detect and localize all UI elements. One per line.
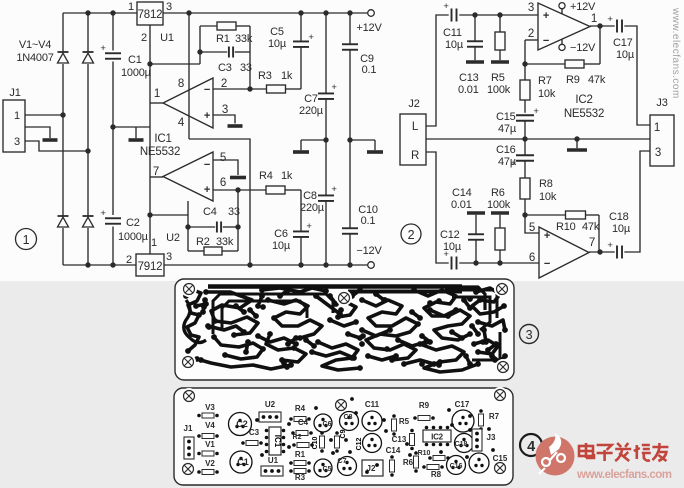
- PCB4 silk R5: [392, 414, 410, 436]
- PCB4 mounting hole TM: [333, 397, 349, 413]
- wire R10 row: [525, 214, 599, 216]
- svg-text:V2: V2: [205, 459, 215, 468]
- wire AC column b: [87, 13, 89, 265]
- node J1-1/bridge: [60, 112, 65, 117]
- svg-text:C17: C17: [455, 400, 470, 409]
- label C8: [300, 190, 325, 214]
- svg-text:+: +: [100, 208, 106, 219]
- svg-text:U2: U2: [265, 400, 276, 409]
- wire C3 row: [200, 51, 250, 53]
- PCB4 silk R6: [403, 451, 419, 473]
- label C2: [118, 217, 149, 243]
- svg-text:1k: 1k: [281, 170, 293, 182]
- PCB3 right corner traces: [445, 290, 500, 360]
- sign plus IC2a: [543, 10, 549, 22]
- svg-text:J3: J3: [656, 97, 667, 109]
- svg-text:R3: R3: [295, 473, 306, 482]
- svg-text:47k: 47k: [582, 221, 600, 233]
- label C3 33: [218, 62, 252, 74]
- svg-text:C11: C11: [443, 27, 462, 39]
- svg-text:+: +: [204, 110, 210, 122]
- PCB3 trace pattern: [186, 288, 505, 372]
- svg-text:3: 3: [166, 1, 172, 13]
- svg-text:+: +: [443, 1, 449, 12]
- PCB3 top bus trace: [208, 287, 485, 311]
- connector J3: [650, 115, 674, 166]
- diode V2 lower: [58, 216, 69, 227]
- resistor R3: [267, 85, 286, 93]
- svg-text:C1: C1: [128, 54, 142, 66]
- sign minus IC1a: [204, 84, 210, 96]
- wire C2 column lower: [112, 227, 114, 266]
- PCB3 pads: [183, 287, 508, 371]
- op-amp IC1b: [163, 152, 213, 201]
- wire power pass v1: [188, 13, 190, 139]
- wire gnd row mid: [113, 126, 150, 128]
- PCB4 silk V3: [197, 403, 219, 418]
- svg-text:0.1: 0.1: [362, 64, 377, 76]
- svg-text:10µ: 10µ: [612, 223, 631, 235]
- PCB4 silk R10: [418, 450, 450, 461]
- pin 5 IC1b: [220, 152, 226, 164]
- sign minus IC1b: [204, 159, 210, 171]
- svg-text:+12V: +12V: [570, 1, 596, 13]
- svg-text:C3: C3: [218, 62, 232, 74]
- svg-text:220µ: 220µ: [299, 105, 324, 117]
- label C11: [443, 27, 464, 51]
- svg-text:47µ: 47µ: [498, 123, 517, 135]
- svg-text:IC2: IC2: [431, 433, 444, 442]
- svg-text:3: 3: [14, 136, 20, 148]
- label C7: [299, 93, 324, 117]
- svg-text:IC2: IC2: [575, 94, 592, 106]
- wire C16 to R8: [524, 139, 526, 178]
- wire pin5 jog: [525, 215, 539, 233]
- node C9C10 mid: [347, 137, 352, 142]
- capacitor C2: [105, 218, 121, 224]
- node fb1 left/C3: [197, 49, 202, 54]
- svg-text:+: +: [533, 106, 539, 117]
- label +12V IC2: [570, 1, 596, 13]
- label J1: [9, 87, 20, 99]
- svg-text:J1: J1: [184, 424, 193, 433]
- background upper (schematic area): [0, 0, 684, 281]
- resistor R1: [217, 22, 236, 30]
- node bus/out2: [147, 212, 152, 217]
- label 1N4007: [16, 52, 53, 64]
- svg-text:C6: C6: [274, 228, 288, 240]
- ground C14: [467, 211, 485, 215]
- plus C15: [533, 106, 539, 117]
- svg-text:−: −: [544, 258, 550, 270]
- section mark 4: [520, 434, 542, 456]
- wire fb col up: [524, 40, 526, 64]
- svg-text:2: 2: [126, 254, 132, 266]
- PCB4 cap C12: [356, 434, 382, 453]
- svg-text:3: 3: [528, 2, 534, 14]
- PCB4 cap C1: [230, 451, 252, 473]
- label J2: [408, 98, 419, 110]
- svg-text:1N4007: 1N4007: [16, 52, 53, 64]
- PCB4 cap C5: [314, 459, 332, 477]
- wire out1 row: [590, 25, 615, 27]
- svg-text:220µ: 220µ: [300, 202, 325, 214]
- sign plus IC1b: [204, 184, 210, 196]
- terminal -12V: [368, 262, 375, 269]
- svg-text:C2: C2: [126, 217, 140, 229]
- svg-text:8: 8: [178, 78, 184, 90]
- svg-text:J2: J2: [408, 98, 419, 110]
- svg-text:5: 5: [529, 222, 535, 234]
- PCB3 mounting hole TM: [336, 290, 352, 306]
- resistor R7: [520, 80, 530, 100]
- terminal +12V: [368, 10, 375, 17]
- PCB4 silk J3: [472, 429, 496, 451]
- wire pin5 row: [213, 160, 238, 175]
- label C17: [613, 37, 635, 61]
- node power/rail: [186, 10, 191, 15]
- svg-text:10k: 10k: [538, 88, 556, 100]
- PCB4 silk R2: [292, 434, 314, 448]
- plus C11: [443, 1, 449, 12]
- node -rail c2: [110, 262, 115, 267]
- svg-text:R2: R2: [293, 434, 302, 441]
- PCB4 silk V1: [197, 440, 219, 456]
- svg-text:+: +: [543, 10, 549, 22]
- pin 2 of U2: [126, 254, 132, 266]
- ground J1 tap: [43, 138, 58, 142]
- svg-text:6: 6: [529, 252, 535, 264]
- svg-text:www.elecfans.com: www.elecfans.com: [576, 469, 672, 481]
- wire bottom row to pin6: [459, 262, 539, 264]
- regulator U1 7812: [137, 2, 163, 25]
- label C12: [440, 229, 462, 253]
- svg-text:C5: C5: [323, 466, 332, 473]
- svg-text:R5: R5: [491, 72, 505, 84]
- svg-text:C17: C17: [613, 37, 633, 49]
- label R5: [487, 72, 511, 96]
- svg-text:V4: V4: [205, 421, 215, 430]
- capacitor C3: [229, 47, 233, 58]
- pin 2 IC2a: [528, 28, 534, 40]
- svg-text:+: +: [331, 82, 337, 93]
- capacitor C16: [516, 155, 534, 161]
- terminal -12V IC2: [559, 39, 565, 51]
- svg-text:U2: U2: [166, 232, 180, 244]
- svg-text:C18: C18: [455, 441, 468, 448]
- resistor R8: [520, 178, 530, 199]
- PCB4 mounting hole TL: [181, 388, 197, 404]
- svg-text:10µ: 10µ: [445, 39, 464, 51]
- svg-text:5: 5: [220, 152, 226, 164]
- PCB4 mounting hole TR: [492, 387, 508, 403]
- svg-text:1: 1: [151, 237, 157, 249]
- svg-text:3: 3: [655, 147, 661, 159]
- svg-text:R10: R10: [556, 221, 576, 233]
- plus C18: [607, 240, 613, 251]
- capacitor C17: [617, 20, 622, 33]
- node R8/R10: [522, 212, 527, 217]
- label R10 47k: [556, 221, 600, 233]
- pin 1 of U1: [128, 1, 134, 13]
- connector J1: [3, 100, 25, 152]
- svg-text:R6: R6: [403, 458, 414, 467]
- node C7C8 mid: [323, 137, 328, 142]
- label C15: [496, 111, 517, 135]
- wire top +rail: [63, 12, 368, 14]
- svg-text:C4: C4: [298, 418, 309, 427]
- svg-text:−: −: [543, 35, 549, 47]
- svg-text:IC1: IC1: [273, 435, 282, 448]
- PCB copper-side board 3: [175, 279, 514, 380]
- svg-text:C18: C18: [609, 211, 629, 223]
- wire C9C10 column: [349, 13, 351, 265]
- PCB3 nested loop traces: [213, 294, 333, 334]
- section mark 2: [401, 224, 421, 244]
- PCB3 mounting hole TL: [181, 281, 197, 297]
- node pin6/fb2: [235, 187, 240, 192]
- svg-text:C1: C1: [237, 457, 249, 467]
- ground pin3: [228, 124, 243, 128]
- svg-text:10µ: 10µ: [616, 49, 635, 61]
- PCB4 silk C13: [392, 429, 415, 451]
- svg-text:R2: R2: [196, 236, 210, 248]
- PCB4 ic IC2: [423, 426, 451, 447]
- node rail-c1: [110, 10, 115, 15]
- wire mid gnd left stub: [301, 139, 326, 141]
- wire C6 column: [300, 190, 302, 265]
- svg-text:C6: C6: [323, 421, 332, 428]
- svg-text:IC1: IC1: [154, 133, 171, 145]
- svg-text:−12V: −12V: [570, 42, 596, 54]
- resistor R4: [266, 186, 285, 194]
- wire mid rail: [426, 138, 650, 140]
- svg-text:7912: 7912: [138, 261, 163, 273]
- wire fb2 top column: [187, 201, 189, 227]
- label C1: [121, 54, 152, 79]
- svg-text:U1: U1: [268, 456, 279, 465]
- capacitor C14: [468, 234, 484, 240]
- svg-text:0.01: 0.01: [458, 84, 479, 96]
- svg-text:6: 6: [220, 177, 226, 189]
- capacitor C8: [318, 195, 334, 201]
- svg-text:100k: 100k: [487, 199, 511, 211]
- PCB4 silk C9: [335, 429, 348, 452]
- svg-text:NE5532: NE5532: [564, 108, 604, 120]
- svg-text:47k: 47k: [588, 74, 606, 86]
- wire R7 column: [524, 64, 526, 113]
- PCB4 cap C17: [452, 400, 474, 432]
- op-amp IC2a: [538, 3, 590, 50]
- sign minus IC2b: [544, 258, 550, 270]
- node out2: [597, 249, 602, 254]
- svg-text:1: 1: [654, 122, 660, 134]
- node fb/R9: [522, 61, 527, 66]
- capacitor C5: [293, 41, 309, 47]
- pin 5 IC2b: [529, 222, 535, 234]
- pin 1 of U2: [151, 237, 157, 249]
- svg-text:−12V: −12V: [356, 245, 382, 257]
- pin 7 IC2b: [589, 237, 595, 249]
- svg-text:+: +: [308, 32, 314, 43]
- PCB4 silk R4: [289, 404, 311, 422]
- pin 2 of U1: [141, 32, 147, 44]
- logo text dianzifashaoyou: [579, 443, 668, 461]
- diode V3: [83, 52, 94, 63]
- resistor R10: [566, 211, 586, 219]
- resistor R2: [204, 247, 222, 255]
- wire fb2 right column: [237, 190, 239, 251]
- svg-text:C9: C9: [340, 429, 347, 438]
- node fb1/pin2: [247, 86, 252, 91]
- PCB4 cap C6: [314, 414, 332, 432]
- label IC2: [575, 94, 592, 106]
- PCB4 cap C2: [229, 413, 252, 436]
- svg-text:NE5532: NE5532: [140, 146, 180, 158]
- wire C4 row: [188, 226, 238, 228]
- svg-text:V1: V1: [205, 440, 215, 449]
- capacitor C11: [452, 9, 457, 22]
- node -rail b: [85, 262, 90, 267]
- wire R6 column: [499, 215, 501, 263]
- node R6 bottom: [497, 260, 502, 265]
- PCB4 silk R9: [413, 401, 435, 421]
- PCB4 silk J1: [184, 424, 194, 459]
- svg-text:33k: 33k: [216, 236, 234, 248]
- pin 1 IC1a: [154, 88, 160, 100]
- label R1 33k: [216, 33, 253, 45]
- PCB4 silk R7: [479, 409, 500, 431]
- resistor R6: [495, 228, 505, 250]
- capacitor C9: [342, 44, 358, 50]
- node C14 bottom: [473, 260, 478, 265]
- svg-text:C7: C7: [338, 458, 347, 465]
- svg-text:V3: V3: [205, 403, 215, 412]
- pin 6 IC1b: [220, 177, 226, 189]
- wire J2-R drop: [426, 152, 449, 263]
- logo url: [576, 469, 672, 481]
- PCB3 mounting hole TR: [494, 281, 510, 297]
- op-amp IC1a: [163, 78, 213, 128]
- svg-text:C14: C14: [386, 446, 401, 455]
- ground C7C8 mid: [293, 140, 309, 152]
- label C9: [360, 53, 376, 76]
- wire out1 col: [599, 26, 601, 64]
- PCB3 left serpentine: [184, 300, 206, 343]
- node -rail c6: [298, 262, 303, 267]
- label R6: [487, 187, 511, 211]
- svg-text:R5: R5: [399, 417, 410, 426]
- node C1 mid: [110, 124, 115, 129]
- svg-text:1: 1: [128, 1, 134, 13]
- svg-text:2: 2: [408, 228, 415, 242]
- label C18: [609, 211, 631, 235]
- svg-text:0.1: 0.1: [361, 215, 376, 227]
- label NE5532 IC2: [564, 108, 604, 120]
- logo elecfans circle: [536, 433, 575, 476]
- node -rail c8: [323, 262, 328, 267]
- wire C15 to rail: [524, 121, 526, 139]
- svg-text:C15: C15: [496, 111, 516, 123]
- svg-text:C16: C16: [450, 463, 463, 470]
- svg-text:1000µ: 1000µ: [118, 231, 149, 243]
- pin 7 IC1b: [153, 166, 159, 178]
- wire R5 column: [499, 15, 501, 60]
- wire fb1 right column: [249, 26, 251, 89]
- pin 2 IC1a: [221, 78, 227, 90]
- PCB4 cap C8: [340, 412, 359, 431]
- svg-text:R8: R8: [539, 178, 553, 190]
- resistor R9: [565, 60, 584, 68]
- plus C2: [100, 208, 106, 219]
- wire fb1 left column: [199, 26, 201, 64]
- section mark 1: [16, 229, 37, 250]
- svg-text:+: +: [204, 184, 210, 196]
- wire bottom -rail: [63, 264, 368, 266]
- PCB3 mounting hole BL: [180, 354, 196, 370]
- label NE5532: [140, 146, 180, 158]
- label -12V: [356, 245, 382, 257]
- wire IC1b output: [150, 176, 163, 178]
- section mark 3: [520, 325, 539, 344]
- label V1~V4: [19, 39, 51, 51]
- pin 6 IC2b: [529, 252, 535, 264]
- node -rail c10: [347, 262, 352, 267]
- svg-text:1: 1: [154, 88, 160, 100]
- capacitor C13: [467, 41, 483, 47]
- svg-text:V1~V4: V1~V4: [19, 39, 51, 51]
- svg-text:1k: 1k: [281, 70, 293, 82]
- wire IC1a output stub: [150, 102, 163, 104]
- svg-text:R1: R1: [216, 33, 230, 45]
- svg-text:+12V: +12V: [356, 22, 382, 34]
- wire pin2 row: [213, 88, 301, 90]
- svg-text:R: R: [411, 150, 419, 162]
- pin 3 of U1: [166, 1, 172, 13]
- svg-text:R6: R6: [491, 187, 505, 199]
- svg-text:C12: C12: [440, 229, 460, 241]
- label R8: [539, 178, 557, 203]
- svg-text:100k: 100k: [487, 84, 511, 96]
- capacitor C4: [217, 222, 221, 233]
- ground C13: [466, 60, 484, 64]
- plus C5: [308, 32, 314, 43]
- svg-text:R10: R10: [418, 450, 431, 457]
- node C13 top: [472, 12, 477, 17]
- svg-text:7: 7: [153, 166, 159, 178]
- wire R10 to out2: [598, 215, 600, 252]
- svg-text:C15: C15: [493, 454, 508, 463]
- svg-text:2: 2: [528, 28, 534, 40]
- svg-text:R8: R8: [431, 470, 442, 479]
- pin 3 of U2: [166, 251, 172, 263]
- svg-text:C12: C12: [356, 437, 363, 450]
- ground mid bus: [129, 127, 144, 140]
- regulator U2 7912: [136, 254, 164, 276]
- node C7/rail: [323, 10, 328, 15]
- PCB4 silk U2: [259, 400, 281, 422]
- svg-text:C8: C8: [303, 190, 317, 202]
- node bus/fb1: [147, 61, 152, 66]
- svg-text:C5: C5: [270, 26, 284, 38]
- wire J1 center tap: [25, 127, 50, 138]
- wire pin2 stub: [525, 39, 538, 41]
- node C5/rail: [298, 10, 303, 15]
- svg-text:U1: U1: [160, 32, 174, 44]
- wire C14 column: [475, 215, 477, 263]
- terminal +12V IC2: [559, 3, 565, 14]
- label +12V: [356, 22, 382, 34]
